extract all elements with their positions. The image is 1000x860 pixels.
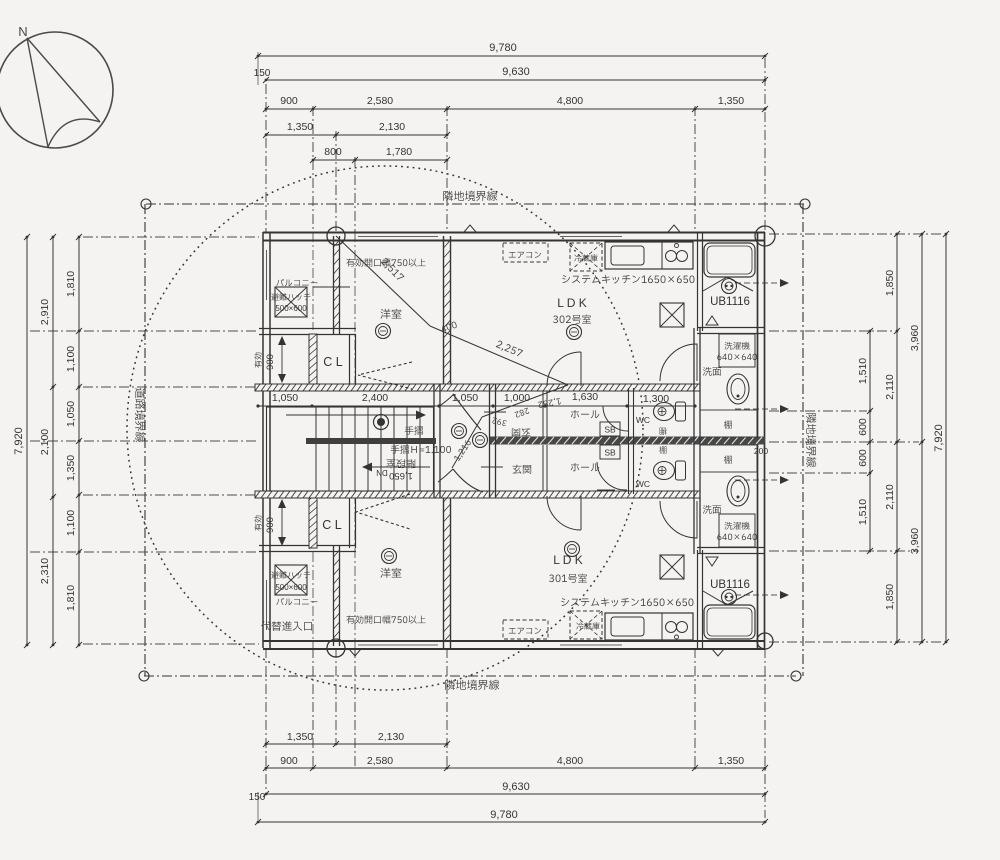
svg-text:500×600: 500×600 <box>275 583 307 592</box>
dimension chain 2,910/2,100/2,310 left <box>52 237 54 645</box>
svg-text:1,810: 1,810 <box>65 585 77 611</box>
column circle bottom-right <box>757 633 773 649</box>
outer wall left <box>262 232 264 648</box>
toilet lower <box>676 461 686 480</box>
svg-text:1,630: 1,630 <box>572 391 598 403</box>
interior dimension row <box>258 405 695 407</box>
shoe box lower <box>600 445 620 459</box>
dimension 7,920 left <box>26 237 28 645</box>
svg-text:150: 150 <box>249 792 266 803</box>
dim 900 lower <box>281 500 283 545</box>
kitchen counter upper <box>605 242 693 269</box>
aircon upper <box>503 243 548 262</box>
washroom door lower <box>660 501 697 538</box>
svg-text:600: 600 <box>857 449 869 467</box>
svg-text:1,350: 1,350 <box>287 731 313 743</box>
dimension chain 1,510/600/600/1,510 right <box>869 331 871 551</box>
shelf upper <box>700 410 757 437</box>
svg-text:L D K: L D K <box>553 553 583 567</box>
section arrows right <box>735 282 785 284</box>
svg-text:900: 900 <box>280 95 298 107</box>
svg-text:WC: WC <box>636 479 650 489</box>
basin upper <box>727 374 749 404</box>
outer wall top <box>263 232 765 234</box>
svg-text:WC: WC <box>636 415 650 425</box>
svg-text:2,310: 2,310 <box>39 558 51 584</box>
outer wall right <box>757 232 759 648</box>
dimension 7,920 right <box>945 234 947 642</box>
stairwell <box>267 407 434 491</box>
svg-text:2,580: 2,580 <box>367 755 393 767</box>
svg-text:7,920: 7,920 <box>933 424 945 452</box>
balcony lower hatch box <box>275 565 307 595</box>
svg-text:1,350: 1,350 <box>718 95 744 107</box>
svg-text:900: 900 <box>265 354 276 370</box>
sliding door chevron upper <box>358 362 412 389</box>
dimension 9,630 top <box>266 79 765 81</box>
svg-text:1,050: 1,050 <box>65 401 77 427</box>
svg-text:1,050: 1,050 <box>272 392 298 404</box>
dim 900 upper <box>281 337 283 382</box>
boundary line bottom <box>144 675 796 677</box>
central unit separation wall (dark hatch) <box>490 437 765 445</box>
svg-text:C L: C L <box>322 518 342 532</box>
dimension 9,630 bottom <box>266 793 765 795</box>
label 玄関 upper <box>512 428 531 437</box>
svg-text:1,810: 1,810 <box>65 271 77 297</box>
svg-text:SB: SB <box>604 425 616 435</box>
column circle bottom-left <box>327 639 345 657</box>
400 label <box>440 321 457 333</box>
dimension chain 1,810/1,100/1,050/1,350/1,100/1,810 left <box>78 237 80 645</box>
hatched closet wall upper <box>309 334 317 387</box>
hall/entry divider upper <box>542 391 544 437</box>
large dotted site circle <box>127 166 643 690</box>
dimension row 1,350/2,130 top <box>266 134 447 136</box>
detector symbols <box>452 424 467 439</box>
bedroom/LDK divider wall upper <box>443 236 445 391</box>
svg-text:1,100: 1,100 <box>65 346 77 372</box>
UB left wall lower <box>697 550 699 648</box>
hatched closet wall lower <box>309 493 317 548</box>
hatched corridor wall upper <box>255 384 700 391</box>
dimension row 1,350/2,130 bottom <box>266 743 447 745</box>
svg-text:DN: DN <box>376 468 388 477</box>
column circle top-right <box>755 226 775 246</box>
UB left wall upper <box>697 232 699 331</box>
svg-text:1,350: 1,350 <box>287 121 313 133</box>
svg-text:1,510: 1,510 <box>857 358 869 384</box>
label 玄関 lower <box>512 465 531 474</box>
outer wall bottom <box>263 640 765 642</box>
dimension row 800/1,780 top <box>313 159 447 161</box>
svg-text:9,780: 9,780 <box>489 42 517 54</box>
label hall upper <box>571 410 600 418</box>
svg-text:2,130: 2,130 <box>379 121 405 133</box>
svg-text:1,100: 1,100 <box>65 510 77 536</box>
UB bottom wall upper <box>697 327 765 329</box>
svg-text:500×600: 500×600 <box>275 304 307 313</box>
entry door lower <box>453 469 483 492</box>
dimension row 900/2,580/4,800/1,350 bottom <box>266 767 765 769</box>
unit bath upper <box>704 243 755 277</box>
label opening width upper <box>346 258 425 266</box>
svg-text:L D K: L D K <box>557 296 587 310</box>
basin lower <box>727 476 749 506</box>
stair up arrow <box>286 414 420 416</box>
svg-text:2,130: 2,130 <box>378 731 404 743</box>
stove burners lower <box>666 622 677 633</box>
hall door upper <box>603 406 628 431</box>
svg-text:600: 600 <box>857 418 869 436</box>
label 洋室 lower <box>380 568 401 578</box>
shoe box upper <box>600 422 620 436</box>
sliding door chevron lower <box>356 494 410 529</box>
svg-text:2,110: 2,110 <box>884 374 896 400</box>
shaft box upper <box>660 303 684 327</box>
column circle top-left of room <box>327 227 345 245</box>
stair room right wall <box>433 384 435 498</box>
svg-text:1,780: 1,780 <box>386 146 412 158</box>
entry door small arc upper <box>438 394 454 407</box>
fridge upper <box>570 243 602 271</box>
entry hall wall x=493 <box>489 384 491 498</box>
vent arrows <box>464 225 476 232</box>
shelf small upper <box>660 427 667 434</box>
stair texts <box>405 426 423 435</box>
label kitchen lower <box>561 598 693 607</box>
WC left wall upper <box>628 388 630 441</box>
bedroom/LDK divider wall lower <box>443 491 445 648</box>
svg-text:2,400: 2,400 <box>362 392 388 404</box>
wall balcony/room divider lower <box>333 546 335 646</box>
svg-text:C L: C L <box>323 355 343 369</box>
svg-text:UB1116: UB1116 <box>710 579 750 591</box>
dimension row 900/2,580/4,800/1,350 top <box>266 108 765 110</box>
svg-text:9,630: 9,630 <box>502 781 530 793</box>
service column wall x=697 <box>693 328 695 554</box>
north arrow compass <box>0 24 113 148</box>
svg-text:800: 800 <box>324 146 342 158</box>
label opening width lower <box>346 615 425 623</box>
closet right wall upper <box>349 334 351 390</box>
svg-text:7,920: 7,920 <box>13 427 25 455</box>
LDK door upper <box>547 352 581 386</box>
svg-text:9,780: 9,780 <box>490 809 518 821</box>
WC left wall lower <box>628 441 630 494</box>
washroom door upper <box>660 344 697 381</box>
aircon lower <box>503 620 548 639</box>
svg-text:1,650: 1,650 <box>389 470 413 481</box>
diagonal 2,257 <box>430 326 568 385</box>
windows <box>358 236 438 238</box>
washer lower <box>719 514 755 547</box>
toilet upper <box>676 402 686 421</box>
grid axis lines <box>265 84 267 232</box>
shelf small lower <box>659 446 666 453</box>
svg-text:1,350: 1,350 <box>718 755 744 767</box>
dimension chain 3,960/3,960 right <box>921 234 923 642</box>
dimension chain 1,850/2,110/2,110/1,850 right <box>896 234 898 642</box>
entry door upper <box>453 394 481 430</box>
svg-text:2,910: 2,910 <box>39 299 51 325</box>
svg-text:150: 150 <box>254 68 271 79</box>
boundary line top (adjacent land) <box>146 203 805 205</box>
svg-text:900: 900 <box>280 755 298 767</box>
svg-text:9,630: 9,630 <box>502 66 530 78</box>
svg-text:4,800: 4,800 <box>557 95 583 107</box>
svg-text:SB: SB <box>604 448 616 458</box>
wall balcony top lower <box>259 545 356 547</box>
alternative entry text <box>261 621 312 631</box>
balcony upper hatch box <box>275 287 307 317</box>
svg-text:2,580: 2,580 <box>367 95 393 107</box>
boundary line right <box>802 204 804 676</box>
label kitchen upper <box>562 275 694 284</box>
label 洋室 upper <box>380 309 401 319</box>
wall balcony bottom upper <box>259 328 356 330</box>
svg-text:2,110: 2,110 <box>884 484 896 510</box>
stair pole <box>374 415 389 430</box>
svg-text:4,800: 4,800 <box>557 755 583 767</box>
svg-text:200: 200 <box>754 446 768 456</box>
genkan leader lines <box>484 411 506 413</box>
svg-text:900: 900 <box>265 517 276 533</box>
svg-text:3,960: 3,960 <box>909 528 921 554</box>
wall balcony/room divider upper <box>333 236 335 334</box>
stair dn arrow <box>368 466 430 468</box>
svg-text:1,850: 1,850 <box>884 270 896 296</box>
svg-text:2,100: 2,100 <box>39 429 51 455</box>
stove burners upper <box>666 251 677 262</box>
svg-text:1,300: 1,300 <box>643 393 669 405</box>
label hall lower <box>571 463 600 471</box>
shelf lower <box>700 445 757 472</box>
unit bath lower <box>704 605 755 639</box>
dimension 9,780 top <box>258 55 765 57</box>
washer upper <box>719 334 755 367</box>
entry door small arc lower <box>438 469 453 482</box>
hatched corridor wall lower <box>255 491 700 498</box>
closet right wall lower <box>349 490 351 548</box>
svg-text:N: N <box>18 24 27 39</box>
UB top wall lower <box>697 547 765 549</box>
kitchen counter lower <box>605 613 693 640</box>
LDK door lower <box>547 496 581 530</box>
fridge lower <box>570 611 602 639</box>
diagonal 2,517 <box>336 236 430 326</box>
svg-text:3,960: 3,960 <box>909 325 921 351</box>
diagonal to door <box>482 385 568 417</box>
dimension 9,780 bottom <box>258 821 765 823</box>
svg-text:1,350: 1,350 <box>65 455 77 481</box>
shaft box lower <box>660 555 684 579</box>
svg-text:1,000: 1,000 <box>504 392 530 404</box>
hall/entry divider lower <box>542 445 544 491</box>
stair handrail <box>306 438 436 444</box>
hall door lower <box>597 462 627 490</box>
svg-text:1,850: 1,850 <box>884 584 896 610</box>
boundary line left (road) <box>144 204 146 676</box>
svg-text:UB1116: UB1116 <box>710 296 750 308</box>
svg-text:1,510: 1,510 <box>857 499 869 525</box>
